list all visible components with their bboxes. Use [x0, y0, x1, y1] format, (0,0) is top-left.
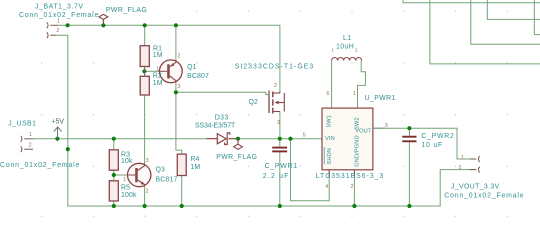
svg-text:SS34-E3/57T: SS34-E3/57T [195, 123, 236, 130]
svg-text:10uH: 10uH [336, 43, 354, 50]
svg-text:J_BAT1_3.7V: J_BAT1_3.7V [35, 3, 84, 10]
svg-text:2: 2 [178, 54, 181, 60]
svg-text:1: 1 [57, 19, 60, 25]
svg-text:2: 2 [56, 28, 59, 34]
svg-text:VOUT: VOUT [355, 129, 372, 135]
svg-text:1M: 1M [190, 164, 200, 171]
svg-text:2: 2 [351, 184, 354, 190]
svg-text:1: 1 [29, 132, 32, 138]
svg-text:Q2: Q2 [249, 99, 259, 106]
svg-text:1: 1 [461, 155, 464, 161]
svg-text:10 uF: 10 uF [421, 142, 443, 149]
svg-text:U_PWR1: U_PWR1 [365, 95, 396, 102]
svg-text:5: 5 [303, 133, 306, 139]
svg-text:1: 1 [332, 48, 335, 53]
svg-text:1: 1 [123, 177, 126, 183]
svg-text:2: 2 [274, 83, 277, 89]
svg-text:2.2 uF: 2.2 uF [263, 173, 290, 180]
svg-text:2: 2 [355, 48, 358, 53]
svg-text:10k: 10k [121, 158, 133, 165]
svg-text:3: 3 [277, 120, 280, 126]
svg-text:3: 3 [146, 158, 149, 164]
svg-text:SW1: SW1 [327, 115, 333, 128]
svg-text:Conn_01x02_Female: Conn_01x02_Female [0, 162, 80, 169]
svg-text:L1: L1 [343, 35, 352, 42]
svg-text:R2: R2 [153, 72, 162, 79]
svg-text:3: 3 [385, 123, 388, 129]
svg-text:2: 2 [29, 143, 32, 149]
svg-text:Q3: Q3 [156, 167, 166, 174]
svg-text:2: 2 [459, 165, 462, 171]
svg-text:4: 4 [325, 184, 328, 190]
svg-text:R4: R4 [190, 156, 199, 163]
svg-text:Q1: Q1 [187, 64, 197, 71]
svg-text:+5V: +5V [51, 119, 64, 126]
svg-text:PWR_FLAG: PWR_FLAG [106, 7, 147, 14]
svg-text:Conn_01x02_Female: Conn_01x02_Female [444, 192, 524, 199]
svg-text:SI2333CDS-T1-GE3: SI2333CDS-T1-GE3 [235, 63, 315, 70]
svg-text:BC807: BC807 [187, 73, 209, 80]
svg-text:1M: 1M [153, 52, 163, 59]
svg-text:J_USB1: J_USB1 [8, 121, 36, 128]
svg-text:D33: D33 [215, 114, 229, 121]
svg-text:6: 6 [327, 91, 330, 97]
svg-text:100k: 100k [121, 192, 137, 199]
svg-text:VIN: VIN [325, 136, 335, 142]
svg-text:SHDN: SHDN [327, 148, 333, 165]
svg-text:J_VOUT_3.3V: J_VOUT_3.3V [451, 184, 500, 191]
svg-text:LTC3531ES6-3_3: LTC3531ES6-3_3 [316, 173, 385, 180]
svg-text:2: 2 [146, 189, 149, 195]
svg-text:BC817: BC817 [156, 177, 178, 184]
svg-text:1: 1 [156, 66, 159, 72]
svg-text:1: 1 [353, 91, 356, 97]
svg-text:3: 3 [178, 84, 181, 90]
svg-text:C_PWR1: C_PWR1 [265, 163, 298, 170]
svg-text:GND/PGND: GND/PGND [355, 135, 361, 166]
svg-text:C_PWR2: C_PWR2 [421, 133, 454, 140]
svg-text:PWR_FLAG: PWR_FLAG [216, 154, 257, 161]
svg-text:R5: R5 [121, 184, 130, 191]
svg-text:1M: 1M [153, 80, 163, 87]
